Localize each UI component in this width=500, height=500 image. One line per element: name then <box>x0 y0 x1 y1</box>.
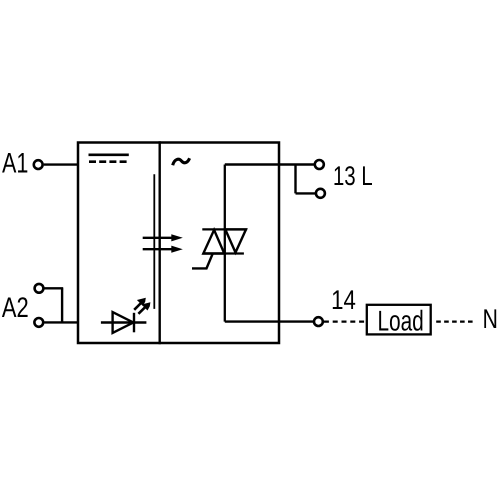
wire A2 lower to box <box>44 321 78 323</box>
triac Q1 left triangle <box>203 230 224 254</box>
wire triac to terminal 14 <box>225 320 314 322</box>
terminal circle 14 <box>314 317 323 326</box>
dashed wire Load to N <box>436 321 473 323</box>
optocoupler arrow 1 <box>143 234 183 241</box>
label 13 L <box>335 166 373 185</box>
triac Q1 bottom bar <box>203 252 244 254</box>
LED D1 cathode bar <box>133 313 135 333</box>
wire branch down for 13 lower <box>294 165 296 194</box>
Load box <box>367 305 431 335</box>
isolation barrier line <box>153 174 155 309</box>
label A2 <box>2 297 28 317</box>
terminal circle A1 <box>34 160 43 169</box>
label Load <box>379 310 422 331</box>
wire to 13 lower circle <box>296 192 316 194</box>
terminal circle 13 lower <box>316 189 325 198</box>
dashed wire 14 to Load <box>324 321 367 323</box>
terminal circle 13 upper <box>315 160 324 169</box>
DC symbol solid bar <box>89 153 129 156</box>
triac Q1 right triangle <box>225 229 246 252</box>
label 14 <box>333 290 355 309</box>
wire triac to terminal 13 <box>225 163 314 165</box>
label N <box>484 309 496 328</box>
relay outline box U1 <box>78 143 279 344</box>
terminal circle A2 lower <box>34 318 43 327</box>
wire A2 upper to corner <box>45 287 64 289</box>
LED light arrow 1 <box>134 298 146 310</box>
triac Q1 top bar <box>202 228 247 230</box>
label A1 <box>2 153 27 172</box>
wire A1 to box <box>44 163 78 165</box>
triac Q1 vertical conductor <box>224 165 226 322</box>
optocoupler arrow 2 <box>143 246 183 253</box>
LED D1 triangle <box>113 312 134 333</box>
LED D1 anode wire <box>101 321 146 323</box>
internal divider wall <box>158 141 160 344</box>
terminal circle A2 upper <box>35 284 44 293</box>
triac Q1 gate lead <box>192 254 213 269</box>
DC symbol dashed bar <box>89 160 127 163</box>
wire A2 bridge down <box>61 288 63 322</box>
LED light arrow 2 <box>138 302 150 314</box>
AC tilde symbol <box>173 158 190 165</box>
